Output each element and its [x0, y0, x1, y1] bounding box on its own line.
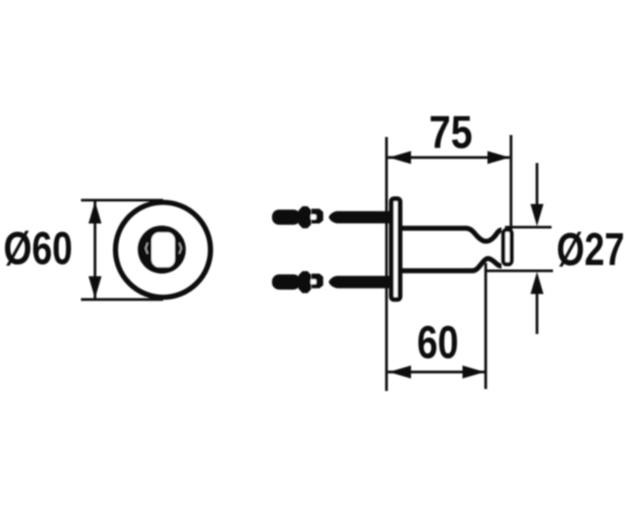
left extension line (wall face, for 75 and 60) [385, 137, 388, 391]
dimension 75 right extension line [510, 135, 513, 231]
dimension 60 right extension line [484, 263, 487, 389]
dimension Ø60 extension line bottom [81, 298, 163, 301]
front view outer circle (rosette) [116, 202, 211, 297]
lower screw plug body [272, 271, 323, 293]
holder body top profile [400, 228, 502, 241]
label 60 [418, 326, 457, 359]
holder end cap [503, 230, 511, 264]
dimension Ø60 line with arrows [89, 200, 102, 299]
dimension Ø27 extension line top [505, 226, 552, 229]
upper screw plug body [272, 206, 323, 228]
holder body bottom profile [400, 259, 502, 271]
dimension Ø27 upper arrow [531, 163, 544, 226]
front view right notch mark [179, 243, 181, 254]
upper screw shaft [329, 211, 391, 223]
front view inner hub (filled disc) [138, 226, 186, 274]
dimension Ø27 extension line bottom [487, 269, 553, 272]
dimension Ø27 lower arrow [531, 272, 544, 334]
dimension 75 line with arrows [388, 151, 510, 164]
label Ø27 [558, 232, 623, 267]
lower screw shaft [329, 276, 391, 288]
label Ø60 [5, 231, 71, 266]
dimension Ø60 extension line top [81, 199, 163, 202]
label 75 [431, 116, 472, 148]
wall flange plate [391, 199, 400, 300]
front view center hole (white rounded rect) [152, 232, 175, 267]
front view left notch mark [146, 243, 148, 254]
dimension 60 line with arrows [388, 366, 485, 379]
